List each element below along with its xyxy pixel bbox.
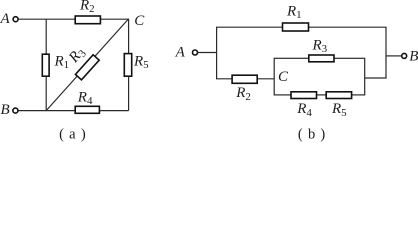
wire: diagonal junction to C (fig a) — [46, 19, 128, 111]
resistor R4 (fig a) — [75, 106, 99, 113]
svg-text:A: A — [0, 11, 11, 27]
resistor R5 (fig b) — [326, 92, 351, 99]
wire: left vertical branch (fig a) — [45, 19, 47, 110]
svg-text:( b ): ( b ) — [298, 126, 326, 142]
resistor R2 (fig b) — [232, 75, 257, 83]
resistor R3 (fig b) — [309, 55, 334, 62]
wire: top rail A to C (fig a) — [18, 18, 128, 20]
wire: bottom rail B (fig a) — [18, 110, 128, 112]
terminal B (fig b) — [402, 53, 407, 58]
wire: mesh to right junction (fig b) — [365, 77, 387, 79]
terminal A (fig b) — [193, 50, 198, 55]
svg-text:B: B — [1, 102, 10, 118]
wire: B lead (fig b) — [386, 55, 402, 57]
svg-text:C: C — [278, 69, 289, 85]
wire: A lead (fig b) — [198, 52, 217, 54]
resistor R2 (fig a) — [75, 16, 100, 24]
wire: right junction vertical (fig b) — [385, 27, 387, 78]
resistor R3 diagonal (fig a) — [75, 55, 99, 80]
resistor R1 (fig b) — [283, 23, 309, 31]
terminal A (fig a) — [13, 17, 18, 22]
svg-text:R2: R2 — [235, 85, 251, 103]
resistor R4 (fig b) — [291, 92, 317, 99]
svg-text:R4: R4 — [77, 89, 93, 107]
svg-text:C: C — [134, 13, 145, 29]
svg-text:R4: R4 — [296, 101, 312, 119]
terminal B (fig a) — [13, 108, 18, 113]
inner mesh loop rectangle at node C (fig b) — [274, 58, 365, 95]
wire: left junction vertical (fig b) — [216, 27, 218, 79]
wire: right vertical C to bottom (fig a) — [128, 19, 130, 111]
wire: top rail with R1 (fig b) — [216, 26, 387, 28]
svg-text:R5: R5 — [133, 54, 149, 72]
resistor R5 (fig a) — [124, 54, 131, 77]
svg-text:R5: R5 — [331, 101, 347, 119]
svg-text:( a ): ( a ) — [59, 126, 86, 142]
svg-text:R3: R3 — [312, 38, 328, 56]
svg-text:A: A — [175, 44, 186, 60]
svg-text:B: B — [409, 48, 418, 64]
resistor R1 (fig a) — [42, 54, 49, 76]
wire: R2 branch (fig b) — [216, 78, 274, 80]
svg-text:R1: R1 — [286, 3, 302, 21]
svg-text:R2: R2 — [79, 0, 95, 15]
